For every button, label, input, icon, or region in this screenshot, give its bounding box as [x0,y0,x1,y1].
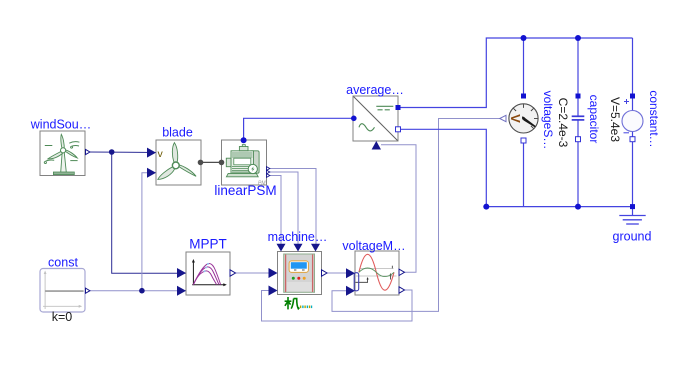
wire voltageM.y1 to average gate [381,145,416,273]
label machine [268,230,328,244]
machine button red [297,277,300,280]
port machine top input 3 [311,244,320,252]
wire capacitor vertical [577,38,579,207]
machine display screen [291,262,307,269]
windSource blade lower-left [48,151,63,159]
svg-text:blade: blade [162,126,193,140]
label machine chinese ellipsis ticks [300,306,312,309]
port constantVoltage bottom [630,137,635,142]
node bottom bus junction capacitor [575,204,581,210]
voltageM green sine [359,268,394,277]
voltageM red sine [359,254,394,290]
port linearPSM.p3 [267,174,270,178]
linearPSM badge circle [248,164,257,173]
label windSource [30,118,91,132]
windSource hub [61,148,66,153]
port voltageM.u2 input [346,286,355,296]
linearPSM motor body right section [250,151,260,173]
node top bus junction capacitor [575,35,581,41]
voltageSensor needle [523,117,535,126]
port blade.v input [147,148,156,158]
MPPT peak markers [207,263,209,265]
port machine.y output [322,270,328,276]
linearPSM top cap [239,147,248,151]
node average.ac pin [351,116,357,122]
label capacitor value [556,98,570,148]
wire machine.y to voltageM.u1 [324,272,355,274]
windSource blade lower-right [65,150,77,158]
label linearPSM [214,183,276,198]
average diagonal [354,97,398,141]
windSource wind dash left [45,145,53,147]
voltageM gray axis line 1 [360,268,394,270]
wire voltageSensor.v to voltageM.u2 [332,119,500,312]
label capacitor [587,95,601,144]
block average rectifier [353,96,398,141]
port const.y output [86,288,90,293]
MPPT curve outer [193,263,220,284]
wire const.y to MPPT.u2 [88,290,186,292]
wire linearPSM.p3 to machine top input 1 [268,176,281,248]
MPPT x axis [192,284,224,286]
windSource wind swirl top-right [69,142,79,148]
svg-text:voltageM…: voltageM… [342,239,405,253]
svg-text:v: v [158,148,164,160]
label MPPT [189,237,227,252]
average AC sine symbol [359,124,375,131]
port MPPT.u2 input [177,286,186,296]
port voltageM.y1 output [399,269,405,275]
node junction windSource [109,149,115,155]
port ground pin [630,204,635,209]
linearPSM motor base [226,173,258,176]
linearPSM shaft box [226,158,231,167]
block voltageM [354,251,399,295]
voltageM small arrow 2 [390,275,392,280]
node blade flange [198,160,204,166]
wire junction to blade.u2 [142,173,156,291]
linearPSM motor ribs top [232,153,253,157]
mechanical flange wire blade to linearPSM [200,161,222,163]
label v [158,148,164,160]
port average gate triangle [372,141,381,150]
voltageM small arrow 1 [356,279,368,283]
MPPT y axis [192,261,194,285]
wire linearPSM.pin to average.ac [244,118,354,140]
label blade [162,126,193,140]
wire average.dc_n to bottom bus [398,129,633,206]
wire linearPSM.p1 to machine top input 3 [268,169,316,248]
port MPPT.u1 input [177,268,186,278]
block linearPSM [222,140,267,187]
svg-text:const: const [48,256,78,270]
block const [40,269,85,313]
wire constantVoltage vertical [632,38,634,207]
svg-text:ground: ground [613,230,652,244]
voltageM blue bracket [354,273,359,291]
svg-text:machine…: machine… [268,230,328,244]
svg-text:C=2.4e-3: C=2.4e-3 [556,98,570,148]
block blade [156,140,201,185]
machine button green [292,277,295,280]
linearPSM motor window [234,158,251,165]
node bottom bus junction left [483,204,489,210]
node junction const [139,288,145,294]
node top bus junction sensor [521,35,527,41]
port machine top input 1 [277,244,286,252]
port linearPSM.p1 [267,167,270,171]
port linearPSM.p2 [267,170,270,174]
port voltageM.u1 input [346,268,355,278]
svg-text:V=5.4e3: V=5.4e3 [608,97,622,142]
block MPPT [186,252,230,295]
voltageSensor ticks [514,104,538,128]
label average [346,83,404,97]
machine cabinet [284,254,315,292]
svg-text:capacitor: capacitor [587,95,601,144]
wire junction to MPPT.u1 [112,152,186,273]
machine button orange [303,277,306,280]
label voltageSensor [541,91,555,150]
label machine chinese glyph ji [285,297,300,309]
component ground [619,207,645,224]
linearPSM motor ribs bottom [232,167,253,173]
constantVoltage plus sign [624,99,629,104]
linearPSM motor body [231,151,254,173]
block machine controller [278,252,322,295]
port average.dc_n [396,127,401,132]
MPPT curve inner [193,271,216,285]
blade rotor blade up [172,143,177,163]
svg-text:linearPSM: linearPSM [214,183,276,198]
const value line [45,290,84,292]
port windSource.y output [86,149,90,154]
port capacitor top [576,94,581,99]
node linearPSM top pin [241,137,247,143]
MPPT curve middle [193,267,219,285]
component voltageSensor [508,104,538,133]
component capacitor [572,116,585,120]
linearPSM lightning bolt [251,166,254,172]
label ground [613,230,652,244]
voltageM small arrow 3 [391,266,393,269]
wire voltageSensor vertical [523,38,525,207]
machine cabinet red edge left [285,255,287,293]
wire average.dc_p to top bus [398,38,633,108]
windSource wind swirl bottom-left [44,160,54,163]
average DC symbol [376,106,393,110]
wire voltageM.y2 to machine.u2 feedback [262,290,413,321]
constantVoltage minus sign [624,132,630,134]
windSource turbine tower [61,152,67,172]
blade hub [172,162,179,169]
machine cabinet lower light panel [287,282,312,292]
node linearPSM flange [219,160,225,166]
svg-text:average…: average… [346,83,404,97]
port machine top input 2 [294,244,303,252]
port voltageSensor.v output [500,115,506,121]
label constantVoltage value [608,97,622,142]
wire linearPSM.p2 to machine top input 2 [268,172,298,247]
port machine.u1 input [269,268,278,278]
svg-text:windSou…: windSou… [30,118,91,132]
port machine.u2 input [269,286,278,296]
label voltageM [342,239,405,253]
label const [48,256,78,270]
block windSource [40,131,85,176]
port voltageSensor top [521,94,526,99]
const x axis [43,305,80,307]
label k=0 [52,310,73,324]
svg-text:k=0: k=0 [52,310,73,324]
windSource turbine base [53,172,74,175]
label constantVoltage [647,90,661,147]
blade rotor blade lower-left [158,167,175,180]
port blade.u2 input [147,168,156,178]
svg-text:constant…: constant… [647,90,661,147]
port voltageM.y2 output [399,287,405,293]
machine cabinet red edge right [312,255,314,293]
component constantVoltage [622,99,643,133]
windSource blade up [61,134,64,149]
voltageM gray axis line 2 [356,275,397,277]
port average.dc_p [396,105,401,110]
machine display marks [294,269,305,271]
svg-text:MPPT: MPPT [189,237,227,252]
svg-text:voltageS…: voltageS… [541,91,555,150]
machine display panel [289,261,308,273]
port constantVoltage top [630,94,635,99]
port MPPT.y output [230,270,236,276]
wire MPPT.y to machine.u1 [233,272,278,274]
port voltageSensor bottom [521,138,526,143]
const y axis [44,273,46,310]
windSource wind dash right [70,160,77,162]
svg-text:V: V [508,114,523,123]
blade rotor blade lower-right [179,165,196,176]
port capacitor bottom [576,137,581,142]
wire windSource.y to blade.v [88,151,156,154]
